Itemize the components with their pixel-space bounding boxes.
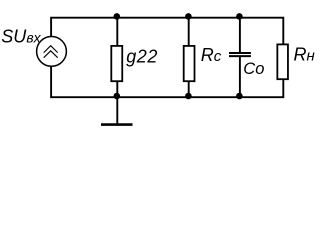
svg-text:Со: Со	[243, 60, 264, 78]
svg-text:SUвх: SUвх	[1, 27, 41, 47]
svg-text:Rн: Rн	[294, 45, 315, 65]
svg-text:g22: g22	[126, 46, 158, 66]
svg-text:Rс: Rс	[201, 45, 222, 65]
